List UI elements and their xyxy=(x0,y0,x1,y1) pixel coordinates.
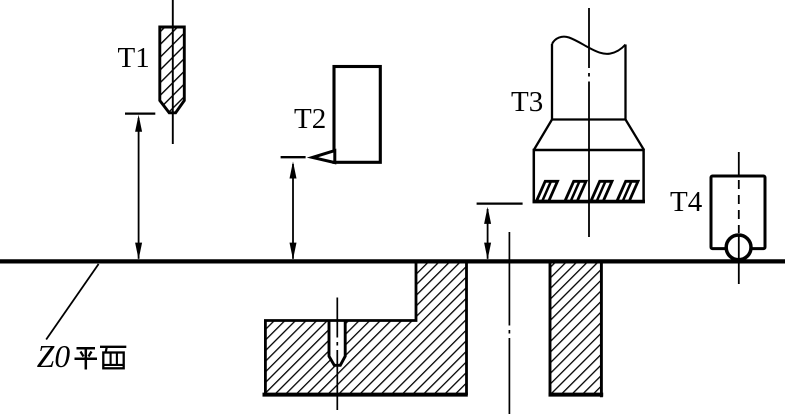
svg-text:T2: T2 xyxy=(294,103,326,135)
workpiece right section outline xyxy=(550,261,601,397)
char mian inner bar xyxy=(103,364,123,366)
tick 2 xyxy=(281,156,306,158)
tick 3 xyxy=(477,202,523,204)
T1 center line xyxy=(172,0,174,144)
char ping top bar xyxy=(77,347,96,350)
char ping left dot xyxy=(81,352,84,357)
char mian top bar xyxy=(100,346,126,348)
T3 tooth 1 xyxy=(537,181,558,201)
T3 center line xyxy=(588,8,590,237)
T3 tooth 2 xyxy=(565,181,586,201)
tick 1 xyxy=(125,112,155,114)
T3 shank break line xyxy=(552,37,626,54)
blind hole outline xyxy=(329,320,345,365)
T4 center line top xyxy=(738,152,740,177)
svg-text:T1: T1 xyxy=(118,42,150,74)
dimension arrow 3 shaft xyxy=(487,209,489,259)
T2 cutting tip xyxy=(313,151,335,163)
workpiece bottom edge right xyxy=(549,393,604,397)
dimension arrow 3 down head xyxy=(484,243,491,260)
tool T2 body xyxy=(334,67,380,163)
Z0 leader line xyxy=(46,264,98,340)
blind hole center line xyxy=(336,298,338,411)
svg-text:Z0: Z0 xyxy=(37,339,71,374)
char ping vertical xyxy=(85,348,88,369)
svg-text:T4: T4 xyxy=(670,186,703,218)
T3 tooth 4 xyxy=(617,181,638,201)
char mian inner vertical 1 xyxy=(110,353,112,365)
T4 center line dashed xyxy=(738,180,740,233)
dimension arrow 1 up head xyxy=(135,115,142,132)
T4 center line bottom xyxy=(738,234,740,284)
char mian left slant xyxy=(106,347,107,353)
through hole center line xyxy=(508,232,510,414)
T3 body xyxy=(534,150,644,202)
tool T3 shank sides xyxy=(552,44,626,120)
T3 taper xyxy=(534,120,644,151)
char ping right dot xyxy=(89,352,92,357)
dimension arrow 2 down head xyxy=(290,243,297,260)
tool T1 body xyxy=(160,27,185,113)
char mian box xyxy=(103,353,123,369)
Z0 plane line xyxy=(0,259,785,263)
dimension arrow 2 shaft xyxy=(292,164,294,259)
workpiece left section outline xyxy=(265,261,466,395)
dimension arrow 3 up head xyxy=(484,207,491,224)
dimension arrow 1 down head xyxy=(135,243,142,260)
char ping mid bar xyxy=(75,357,98,360)
dimension arrow 1 shaft xyxy=(138,118,140,259)
T4 ball tip xyxy=(726,235,751,260)
workpiece left hatched section xyxy=(265,261,466,396)
dimension arrow 2 up head xyxy=(290,162,297,179)
svg-text:T3: T3 xyxy=(511,86,543,118)
tool T4 body xyxy=(711,176,765,249)
workpiece bottom edge left xyxy=(263,393,468,397)
T3 tooth 3 xyxy=(591,181,612,201)
char mian inner vertical 2 xyxy=(116,353,118,365)
workpiece right hatched section xyxy=(550,261,601,396)
T3 body bottom edge xyxy=(533,200,646,204)
